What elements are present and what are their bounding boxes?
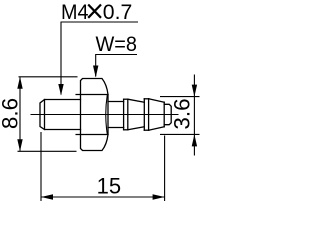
dim 15 extension lines xyxy=(41,132,165,201)
barb 2 cone xyxy=(149,99,165,130)
arrow 15 left xyxy=(41,194,53,199)
arrow 3.6 top (down, outside) xyxy=(192,85,197,97)
dim 8.6 extension lines xyxy=(18,77,78,152)
thread stud (M4) with end chamfer xyxy=(40,100,81,130)
arrow 8.6 top (up) xyxy=(17,77,22,89)
arrow M4 leader (down) xyxy=(58,84,63,96)
dim 3.6 line xyxy=(193,75,195,156)
leader W=8 xyxy=(95,55,137,77)
svg-text:3.6: 3.6 xyxy=(170,98,195,129)
barb 2 sharp edge (left face, two lines) xyxy=(144,99,148,130)
dim 15 line xyxy=(41,196,165,198)
hose end tip cylinder with chamfer xyxy=(164,104,171,124)
arrow 15 right xyxy=(153,194,165,199)
arrow W=8 leader (down) xyxy=(93,66,98,78)
leader M4x0.7 xyxy=(61,22,139,95)
label M4x0.7 xyxy=(61,0,132,24)
barb stem: neck xyxy=(108,102,124,128)
svg-text:8.6: 8.6 xyxy=(0,98,23,129)
arrow 8.6 bottom (down) xyxy=(17,139,22,151)
svg-text:M4: M4 xyxy=(61,0,89,24)
dim 8.6 line xyxy=(19,78,21,151)
svg-text:0.7: 0.7 xyxy=(103,0,133,24)
svg-text:15: 15 xyxy=(97,174,121,199)
barb 1 sharp edge (left face, two lines) xyxy=(124,99,128,130)
dimension / leader thin lines xyxy=(18,22,200,201)
arrow 3.6 bottom (up, outside) xyxy=(192,134,197,146)
dim 3.6 extension lines xyxy=(160,97,200,135)
centerline xyxy=(31,114,178,116)
arrowheads xyxy=(17,66,197,200)
hex nut body xyxy=(76,79,108,151)
barb 1 cone (tapers toward hose end) xyxy=(128,99,145,130)
svg-text:W=8: W=8 xyxy=(96,32,138,56)
